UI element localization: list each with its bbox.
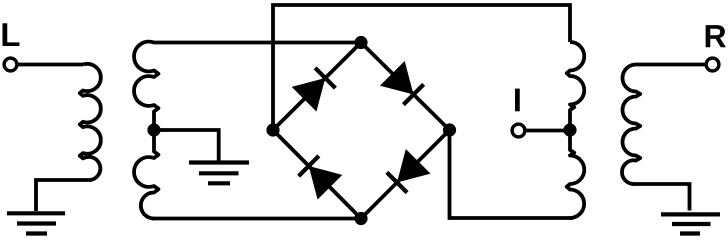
terminal R (706, 58, 719, 71)
diode D4 bottom-to-left (299, 156, 343, 200)
wire L to primary (17, 63, 83, 67)
wire edge bottom-left (273, 130, 361, 219)
label R (706, 25, 726, 47)
wire secondary bottom to ground (632, 184, 690, 211)
label I (515, 89, 520, 112)
wire center tap to ground (154, 130, 219, 161)
wire primary bottom to ground (36, 180, 92, 211)
diode D2 top-to-right (380, 61, 424, 105)
ground G1 (7, 213, 65, 233)
wire left node up over top to right primary (273, 5, 570, 130)
wire I to right primary tap (525, 129, 570, 133)
wire right node down and right to primary bottom (450, 130, 574, 218)
ground G3 (661, 214, 720, 233)
node top (354, 36, 367, 49)
label L (3, 23, 20, 46)
wire edge left-top (273, 43, 361, 131)
terminal L (4, 58, 17, 71)
wire edge right-bottom (361, 130, 450, 219)
wire secondary bottom to bottom node (152, 217, 361, 221)
node secondary center tap (147, 123, 160, 136)
diode D1 left-to-top (292, 68, 336, 112)
diode D3 right-to-bottom (387, 149, 431, 193)
inductor left secondary (top half) (134, 42, 361, 219)
node right (443, 123, 456, 136)
node bottom (354, 212, 367, 225)
inductor left primary (80, 64, 101, 180)
node right primary tap (563, 123, 576, 136)
inductor right secondary (622, 65, 705, 185)
terminal I (512, 124, 525, 137)
inductor right primary (567, 42, 584, 218)
ground G2 (189, 163, 249, 184)
node left (266, 123, 279, 136)
wire edge top-right (361, 43, 450, 131)
